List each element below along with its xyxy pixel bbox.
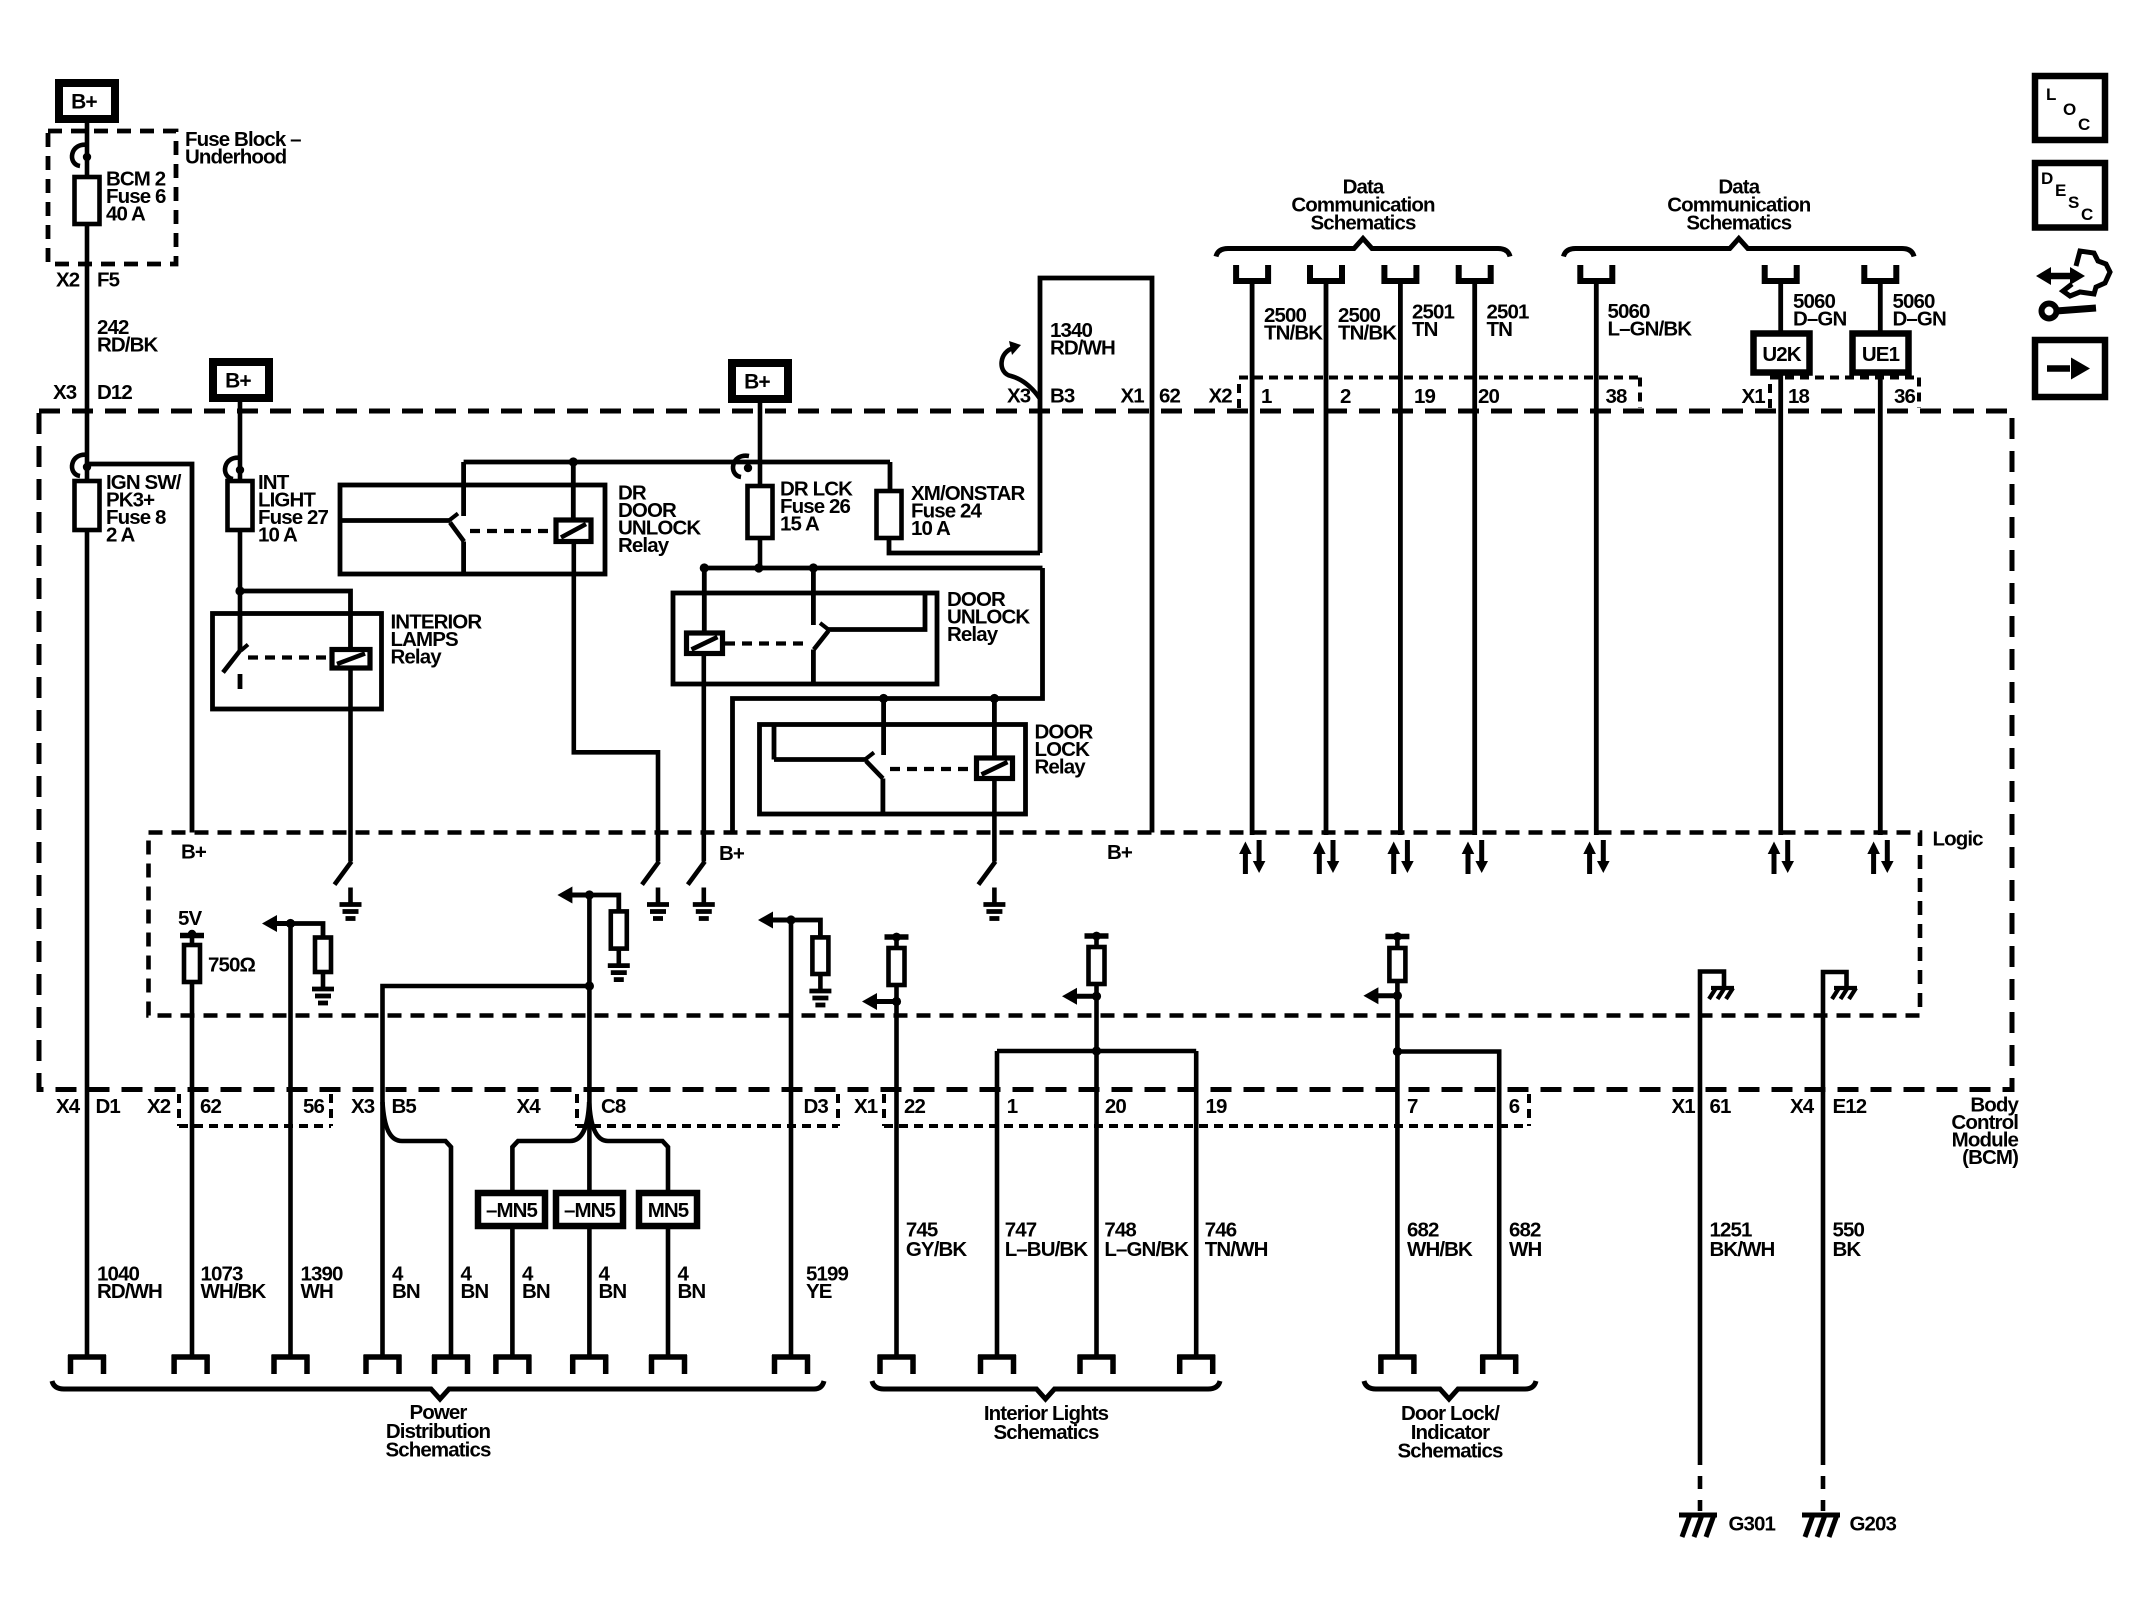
svg-text:X2: X2 bbox=[56, 268, 80, 291]
terminal staple 9 bbox=[772, 1355, 810, 1374]
wire DR LCK feed x=760 bbox=[758, 402, 763, 486]
svg-text:38: 38 bbox=[1606, 385, 1628, 408]
terminal staple 15 bbox=[1480, 1355, 1518, 1374]
svg-text:RD/WH: RD/WH bbox=[97, 1280, 162, 1303]
DOOR LOCK switch arm bbox=[866, 761, 883, 779]
power symbol B+ (feed 2) bbox=[213, 362, 269, 398]
svg-text:20: 20 bbox=[1478, 385, 1500, 408]
wire label 4 BN (3) bbox=[522, 1262, 550, 1303]
driver node arrow pin22 bbox=[862, 985, 901, 1010]
svg-text:2 A: 2 A bbox=[106, 523, 136, 546]
svg-text:Relay: Relay bbox=[391, 645, 443, 668]
supply bar 5V bbox=[180, 930, 204, 938]
svg-text:19: 19 bbox=[1206, 1095, 1228, 1118]
resistor pin7 bbox=[1389, 937, 1405, 982]
svg-text:D1: D1 bbox=[96, 1095, 121, 1118]
icon box LOC bbox=[2035, 76, 2105, 140]
svg-text:TN: TN bbox=[1487, 318, 1513, 341]
svg-text:WH: WH bbox=[1509, 1238, 1541, 1261]
wire label 5199 YE bbox=[806, 1262, 849, 1303]
svg-text:Logic: Logic bbox=[1933, 827, 1984, 850]
data wire 38 bbox=[1594, 281, 1599, 835]
wire 682 pin7 bbox=[1395, 996, 1400, 1355]
wire rail to XM fuse bbox=[888, 462, 893, 491]
data wire 1 bbox=[1250, 281, 1255, 835]
supply bar pin20 bbox=[1085, 932, 1109, 941]
svg-text:BN: BN bbox=[392, 1280, 420, 1303]
wire U2K lower bbox=[1778, 373, 1783, 836]
svg-text:S: S bbox=[2068, 193, 2079, 212]
svg-text:750Ω: 750Ω bbox=[208, 953, 256, 976]
wire B5 fork to second 4BN bbox=[383, 1102, 452, 1355]
driver node arrow D3 bbox=[758, 912, 796, 929]
brace door lock indicator bbox=[1364, 1381, 1536, 1399]
power symbol B+ (feed 3) bbox=[732, 363, 788, 399]
svg-text:G301: G301 bbox=[1729, 1512, 1776, 1535]
relay box DR DOOR UNLOCK bbox=[340, 485, 605, 574]
data arrows pin18 bbox=[1768, 840, 1794, 874]
splice box MN5 (3) bbox=[639, 1193, 697, 1226]
ground G203 bbox=[1802, 1515, 1840, 1537]
fuse block underhood dashed box bbox=[48, 131, 176, 264]
ground G301 bbox=[1679, 1515, 1717, 1537]
svg-text:C: C bbox=[2081, 205, 2093, 224]
connector hook C4 on wire 760 bbox=[733, 456, 752, 477]
resistor pin56 pullup bbox=[315, 938, 331, 973]
svg-text:D: D bbox=[2041, 169, 2053, 188]
pin labels data group1 bbox=[1261, 385, 1500, 408]
svg-text:Schematics: Schematics bbox=[386, 1439, 491, 1462]
label DR LCK Fuse 26 15 A bbox=[780, 477, 853, 535]
junction dot wire240/relay feed bbox=[235, 586, 244, 595]
svg-text:MN5: MN5 bbox=[648, 1199, 689, 1222]
icon box DESC bbox=[2035, 163, 2105, 228]
dotted bracket X1 pins bbox=[884, 1094, 1529, 1126]
terminal staple 13 bbox=[1177, 1355, 1215, 1374]
wire DOOR LOCK coil to logic bbox=[992, 779, 997, 862]
data wire 2 bbox=[1324, 281, 1329, 835]
svg-text:Underhood: Underhood bbox=[185, 145, 287, 168]
label 750 ohm bbox=[208, 953, 256, 976]
data arrows pin38 bbox=[1583, 840, 1609, 874]
svg-text:Schematics: Schematics bbox=[1311, 211, 1416, 234]
svg-text:UE1: UE1 bbox=[1862, 343, 1900, 366]
data arrows pin1 bbox=[1239, 840, 1265, 874]
dotted bracket 62-56 bbox=[179, 1094, 331, 1126]
wire coil feed DR DOOR UNLOCK bbox=[571, 462, 576, 520]
resistor pin22 bbox=[889, 937, 905, 985]
label INTERIOR LAMPS Relay bbox=[391, 610, 483, 668]
icon double arrow with wrench bbox=[2036, 251, 2110, 319]
junction dot B5C8 split bbox=[585, 981, 594, 990]
svg-text:X2: X2 bbox=[147, 1095, 171, 1118]
wire DOOR UNLOCK coil to logic bbox=[701, 654, 706, 862]
connector labels D3 X1 22 1 20 19 7 6 bbox=[804, 1095, 1520, 1118]
svg-text:B5: B5 bbox=[392, 1095, 417, 1118]
switch to ground (door lock driver) bbox=[978, 862, 1005, 919]
wire label 1040 RD/WH bbox=[97, 1262, 162, 1303]
wire B+ rail y=568 bbox=[704, 566, 1042, 571]
svg-text:2: 2 bbox=[1340, 385, 1351, 408]
wire label 550 BK bbox=[1833, 1218, 1865, 1261]
svg-text:18: 18 bbox=[1788, 385, 1810, 408]
wire ignition feed x=87 inside BCM bbox=[85, 411, 90, 1355]
svg-text:TN/BK: TN/BK bbox=[1264, 321, 1323, 344]
wire label 682 WH/BK bbox=[1407, 1218, 1473, 1261]
wire from junction to interior lamps coil bbox=[240, 591, 351, 650]
wire 748 pin20 bbox=[1094, 996, 1099, 1355]
driver node arrow pin7 bbox=[1363, 981, 1402, 1004]
wire INT LIGHT feed x=240 bbox=[238, 402, 243, 614]
wire label 5060 D-GN (UE1) bbox=[1893, 290, 1946, 331]
label 1340 RD/WH bbox=[1050, 319, 1115, 360]
fuse XM/ONSTAR Fuse24 10A bbox=[877, 491, 902, 538]
svg-text:D–GN: D–GN bbox=[1793, 307, 1846, 330]
DOOR LOCK switch output stub bbox=[881, 779, 886, 815]
fuse INT LIGHT Fuse27 10A bbox=[228, 481, 253, 530]
terminal staple 1 bbox=[68, 1355, 106, 1374]
DOOR UNLOCK switch output stub bbox=[811, 650, 816, 685]
svg-text:36: 36 bbox=[1894, 385, 1916, 408]
data connector fork 4 bbox=[1459, 265, 1491, 281]
label Body Control Module BCM bbox=[1951, 1093, 2019, 1169]
svg-text:X1: X1 bbox=[1742, 385, 1766, 408]
wire 746 pin19 bbox=[1194, 1051, 1199, 1355]
terminal staple 5 bbox=[432, 1355, 470, 1374]
DR DOOR UNLOCK fixed contact bbox=[340, 514, 458, 521]
wire 682 pin6 branch bbox=[1397, 1052, 1499, 1356]
svg-text:Schematics: Schematics bbox=[1398, 1440, 1503, 1463]
svg-text:E12: E12 bbox=[1833, 1095, 1867, 1118]
wire B+ rail y=462 bbox=[464, 460, 890, 465]
label Data Communication Schematics 2 bbox=[1667, 175, 1811, 234]
wire 745 pin22 to terminal bbox=[894, 1002, 899, 1356]
wire branch to pin B5 bbox=[383, 986, 590, 1355]
label B+ at logic entry x=732 bbox=[719, 842, 745, 865]
terminal staple 2 bbox=[172, 1355, 210, 1374]
DOOR UNLOCK relay dashed link bbox=[725, 641, 808, 645]
data connector fork 3 bbox=[1384, 265, 1416, 281]
svg-text:G203: G203 bbox=[1850, 1512, 1897, 1535]
data wire 4 bbox=[1472, 281, 1477, 835]
wire rail to switch feed DR DOOR UNLOCK bbox=[461, 462, 466, 516]
svg-text:–MN5: –MN5 bbox=[564, 1199, 616, 1222]
svg-text:B+: B+ bbox=[71, 91, 97, 114]
svg-text:C8: C8 bbox=[601, 1095, 626, 1118]
fuse IGN SW PK3+ Fuse8 2A bbox=[75, 481, 100, 530]
wire DR DOOR UNLOCK coil to logic bbox=[574, 542, 658, 862]
svg-text:WH: WH bbox=[301, 1280, 333, 1303]
label Data Communication Schematics 1 bbox=[1291, 175, 1435, 234]
svg-text:X1: X1 bbox=[1121, 384, 1145, 407]
dotted bracket C8-D3 bbox=[577, 1094, 838, 1126]
wire DOOR UNLOCK B+ loop bbox=[733, 568, 1043, 833]
relay box DOOR LOCK bbox=[760, 725, 1026, 815]
svg-text:U2K: U2K bbox=[1762, 343, 1801, 366]
DOOR UNLOCK switch arm bbox=[814, 631, 829, 650]
label Power Distribution Schematics bbox=[386, 1401, 491, 1462]
svg-text:62: 62 bbox=[1159, 384, 1181, 407]
wire label 4 BN (1) bbox=[392, 1262, 420, 1303]
svg-text:F5: F5 bbox=[97, 268, 120, 291]
data arrows pin4 bbox=[1462, 840, 1488, 874]
wire label 5060 D-GN (U2K) bbox=[1793, 290, 1846, 331]
data connector fork U2K bbox=[1765, 265, 1797, 281]
DOOR LOCK coil bbox=[977, 758, 1013, 779]
svg-text:X3: X3 bbox=[1007, 384, 1031, 407]
wire node to resistor B5C8 bbox=[589, 895, 618, 911]
wire label 2500 TN/BK (1) bbox=[1264, 304, 1323, 345]
wire interior lamps coil output bbox=[348, 668, 353, 862]
svg-text:Relay: Relay bbox=[947, 623, 999, 646]
svg-text:B+: B+ bbox=[744, 371, 770, 394]
terminal staple 10 bbox=[878, 1355, 916, 1374]
DOOR UNLOCK switch feed bbox=[811, 568, 816, 625]
svg-text:RD/BK: RD/BK bbox=[97, 333, 159, 356]
wire label 242 RD/BK bbox=[97, 316, 159, 357]
svg-text:X4: X4 bbox=[517, 1095, 542, 1118]
wire net 242 vertical x=87 bbox=[85, 123, 90, 411]
svg-text:X3: X3 bbox=[53, 381, 77, 404]
label B+ at logic entry x=192 bbox=[181, 840, 207, 863]
label Door Lock Indicator Schematics bbox=[1398, 1402, 1503, 1463]
connector hook C2 on wire 87 bbox=[72, 455, 91, 476]
wire label 1073 WH/BK bbox=[201, 1262, 267, 1303]
wire net 1340 RD/WH loop bbox=[1040, 278, 1152, 833]
wire node to resistor D3 bbox=[791, 920, 820, 937]
junction dot pin20 box bbox=[1092, 1046, 1101, 1055]
label XM/ONSTAR Fuse 24 10 A bbox=[911, 482, 1025, 540]
data connector fork 1 bbox=[1236, 265, 1268, 281]
svg-text:20: 20 bbox=[1105, 1095, 1127, 1118]
ground below resistor D3 bbox=[809, 974, 831, 1005]
junction dots rail 698 bbox=[879, 694, 999, 703]
data arrows pin3 bbox=[1387, 840, 1413, 874]
brace data communication 1 bbox=[1216, 239, 1510, 257]
svg-text:61: 61 bbox=[1710, 1095, 1732, 1118]
driver node arrow B5C8 bbox=[557, 887, 594, 904]
label B+ at logic entry x=1152 bbox=[1107, 841, 1133, 864]
wire label 747 L-BU/BK bbox=[1005, 1218, 1089, 1261]
svg-text:L–GN/BK: L–GN/BK bbox=[1104, 1238, 1189, 1261]
svg-text:RD/WH: RD/WH bbox=[1050, 336, 1115, 359]
wire label 745 GY/BK bbox=[906, 1218, 968, 1261]
label Logic bbox=[1933, 827, 1984, 850]
terminal staple 11 bbox=[978, 1355, 1016, 1374]
svg-text:D12: D12 bbox=[97, 381, 132, 404]
connector labels X3 B3 X1 62 X2 bbox=[1007, 384, 1232, 407]
terminal staple 4 bbox=[364, 1355, 402, 1374]
internal box interior lights outputs bbox=[997, 1049, 1196, 1054]
DOOR LOCK coil feed bbox=[992, 699, 997, 759]
svg-text:1: 1 bbox=[1007, 1095, 1018, 1118]
junction dot rail/coil DR DOOR UNLOCK bbox=[569, 457, 578, 466]
svg-text:19: 19 bbox=[1414, 385, 1436, 408]
svg-text:BK/WH: BK/WH bbox=[1710, 1238, 1775, 1261]
svg-text:15 A: 15 A bbox=[780, 512, 820, 535]
supply bar pin22 bbox=[885, 933, 909, 942]
connector label X3 D12 bbox=[53, 381, 132, 404]
label IGN SW/ PK3+ Fuse 8 2 A bbox=[106, 471, 182, 547]
switch to ground (DR door unlock driver) bbox=[642, 862, 669, 919]
svg-text:BN: BN bbox=[599, 1280, 627, 1303]
svg-text:–MN5: –MN5 bbox=[486, 1199, 538, 1222]
net box U2K bbox=[1754, 334, 1810, 373]
interior lamps relay dashed link bbox=[248, 655, 330, 659]
splice box -MN5 (2) bbox=[556, 1193, 623, 1226]
svg-text:BN: BN bbox=[522, 1280, 550, 1303]
svg-text:40 A: 40 A bbox=[106, 202, 146, 225]
wire pin C8 down bbox=[587, 986, 592, 1355]
svg-text:Schematics: Schematics bbox=[994, 1421, 1099, 1444]
label Fuse Block - Underhood bbox=[185, 128, 301, 169]
dashed wire to G203 bbox=[1821, 1452, 1826, 1511]
svg-text:L: L bbox=[2046, 85, 2056, 104]
chassis ground internal (E12) bbox=[1832, 988, 1857, 999]
DOOR UNLOCK fixed contact bbox=[820, 593, 925, 630]
connector label X2 F5 bbox=[56, 268, 120, 291]
wire ground 1251 with internal jog bbox=[1700, 972, 1724, 1453]
wire label 2501 TN (19) bbox=[1412, 300, 1455, 341]
wire label 748 L-GN/BK bbox=[1104, 1218, 1189, 1261]
resistor D3 bbox=[812, 937, 828, 974]
wire label 1390 WH bbox=[301, 1262, 344, 1303]
wire label 1251 BK/WH bbox=[1710, 1218, 1775, 1261]
label Interior Lights Schematics bbox=[984, 1402, 1109, 1444]
DR DOOR UNLOCK coil bbox=[556, 520, 591, 542]
svg-text:YE: YE bbox=[806, 1280, 832, 1303]
wire 747 pin1 bbox=[995, 1051, 1000, 1355]
interior lamps switch arm bbox=[223, 650, 241, 672]
data connector fork 38 bbox=[1580, 265, 1612, 281]
brace interior lights bbox=[872, 1381, 1220, 1399]
DR DOOR UNLOCK relay dashed link bbox=[470, 529, 554, 533]
icon box arrow right bbox=[2035, 340, 2105, 397]
fuse BCM2 Fuse6 40A bbox=[75, 177, 100, 224]
relay box DOOR UNLOCK bbox=[673, 593, 937, 684]
data connector fork UE1 bbox=[1864, 265, 1896, 281]
pin labels data group2 bbox=[1606, 385, 1916, 408]
power symbol B+ (feed 1) bbox=[59, 83, 115, 119]
wire label 2501 TN (20) bbox=[1487, 300, 1530, 341]
terminal staple 7 bbox=[570, 1355, 608, 1374]
driver node arrow pin56 bbox=[262, 915, 295, 932]
wire UE1 lower bbox=[1878, 373, 1883, 836]
wire label 4 BN (4) bbox=[599, 1262, 627, 1303]
dotted connector bracket X1 data bbox=[1770, 378, 1919, 409]
label BCM 2 Fuse 6 40 A bbox=[106, 167, 166, 225]
svg-text:7: 7 bbox=[1407, 1095, 1418, 1118]
svg-text:B+: B+ bbox=[1107, 841, 1133, 864]
svg-text:X4: X4 bbox=[56, 1095, 81, 1118]
svg-text:10 A: 10 A bbox=[911, 517, 951, 540]
wire node56 to resistor bbox=[291, 924, 324, 938]
net box UE1 bbox=[1853, 334, 1909, 373]
driver node arrow pin20 bbox=[1062, 984, 1101, 1005]
wire XM fuse output to 1340 box bbox=[889, 538, 1040, 553]
label G301 bbox=[1729, 1512, 1776, 1535]
DR DOOR UNLOCK switch arm bbox=[450, 523, 464, 542]
wire DR LCK fuse to rail bbox=[758, 538, 763, 568]
svg-text:WH/BK: WH/BK bbox=[1407, 1238, 1473, 1261]
wire C8 fork left MN5 bbox=[512, 1102, 589, 1355]
ground below resistor pin56 bbox=[312, 972, 334, 1003]
label G203 bbox=[1850, 1512, 1897, 1535]
BCM module dashed boundary box bbox=[39, 411, 2012, 1090]
wire label 5060 L-GN/BK bbox=[1608, 300, 1693, 341]
svg-text:X4: X4 bbox=[1790, 1095, 1815, 1118]
wire ground 550 with internal jog bbox=[1823, 972, 1847, 1452]
wire 1390 from node56 to terminal bbox=[288, 924, 293, 1356]
junction dot pin7 branch bbox=[1393, 1047, 1402, 1056]
connector hook C1 on wire 87 bbox=[72, 145, 91, 166]
svg-text:C: C bbox=[2078, 115, 2090, 134]
chassis ground internal (61) bbox=[1709, 988, 1734, 999]
label INT LIGHT Fuse 27 10 A bbox=[258, 471, 329, 547]
label DR DOOR UNLOCK Relay bbox=[618, 481, 701, 557]
relay box INTERIOR LAMPS bbox=[213, 614, 382, 710]
connector labels X3 B5 X4 C8 bbox=[351, 1095, 626, 1118]
junction dots rail 568 bbox=[700, 563, 818, 572]
data connector fork 2 bbox=[1310, 265, 1342, 281]
svg-text:B+: B+ bbox=[225, 370, 251, 393]
svg-text:TN/BK: TN/BK bbox=[1338, 321, 1397, 344]
wire label 682 WH bbox=[1509, 1218, 1541, 1261]
terminal staple 14 bbox=[1378, 1355, 1416, 1374]
label DOOR LOCK Relay bbox=[1035, 720, 1094, 778]
switch to ground (door unlock driver) bbox=[688, 862, 715, 919]
terminal staple 12 bbox=[1078, 1355, 1116, 1374]
switch to ground (interior lamps driver) bbox=[335, 862, 362, 919]
connector hook with arrow X3-B3 bbox=[1002, 341, 1040, 398]
supply bar pin7 bbox=[1385, 932, 1409, 941]
data arrows pin36 bbox=[1867, 840, 1893, 874]
terminal staple 8 bbox=[649, 1355, 687, 1374]
wire 1073 from resistor to pin 62 bbox=[190, 982, 195, 1355]
svg-text:B+: B+ bbox=[719, 842, 745, 865]
wire label 4 BN (2) bbox=[461, 1262, 489, 1303]
logic dashed box bbox=[149, 833, 1921, 1016]
svg-text:TN: TN bbox=[1412, 318, 1438, 341]
svg-text:O: O bbox=[2063, 100, 2076, 119]
wire label 4 BN (5) bbox=[678, 1262, 706, 1303]
wire UE1 upper bbox=[1878, 281, 1883, 334]
svg-text:1: 1 bbox=[1261, 385, 1272, 408]
connector labels X1 61 X4 E12 bbox=[1672, 1095, 1867, 1118]
svg-text:D–GN: D–GN bbox=[1893, 307, 1946, 330]
svg-text:D3: D3 bbox=[804, 1095, 829, 1118]
svg-text:X1: X1 bbox=[1672, 1095, 1696, 1118]
svg-text:GY/BK: GY/BK bbox=[906, 1238, 968, 1261]
svg-text:6: 6 bbox=[1509, 1095, 1520, 1118]
data arrows pin2 bbox=[1313, 840, 1339, 874]
internal box IGN fuse bbox=[87, 464, 192, 833]
svg-text:TN/WH: TN/WH bbox=[1205, 1238, 1268, 1261]
svg-text:BK: BK bbox=[1833, 1238, 1862, 1261]
dotted connector bracket X2 bbox=[1239, 378, 1640, 415]
interior lamps switch lower stub bbox=[238, 674, 243, 689]
wire label 746 TN/WH bbox=[1205, 1218, 1268, 1261]
DOOR UNLOCK coil bbox=[687, 633, 723, 654]
fuse DR LCK Fuse26 15A bbox=[748, 486, 773, 538]
svg-text:X2: X2 bbox=[1209, 384, 1233, 407]
svg-text:X1: X1 bbox=[854, 1095, 878, 1118]
svg-text:L–BU/BK: L–BU/BK bbox=[1005, 1238, 1089, 1261]
label 5V bbox=[178, 907, 203, 930]
svg-text:B3: B3 bbox=[1050, 384, 1075, 407]
svg-text:Schematics: Schematics bbox=[1686, 211, 1791, 234]
svg-text:(BCM): (BCM) bbox=[1962, 1146, 2018, 1169]
